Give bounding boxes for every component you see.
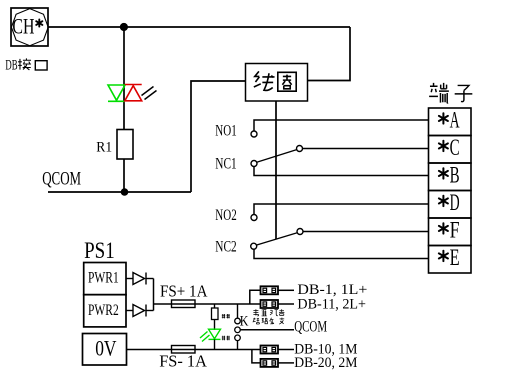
svg-text:A: A [450,108,460,133]
wire: DB-1 to label [278,289,294,291]
connector DB-20 [261,359,279,367]
svg-text:NC1: NC1 [215,156,236,173]
圈 glyph [278,72,296,91]
junction dot QCOM [121,188,129,196]
svg-text:CH: CH [12,14,34,39]
wire: QCOM rail [48,191,191,193]
wire: branch down to DB-20 [252,350,261,363]
svg-text:NO2: NO2 [215,207,236,224]
wire: DB-10 to label [278,349,294,351]
wire: CH* box to far right [48,26,350,28]
共阴 tiny label [222,314,230,318]
wire: coil bottom vertical (armature) [275,101,277,240]
svg-text:PWR2: PWR2 [88,302,119,319]
svg-text:QCOM: QCOM [294,319,327,336]
wire: plus rail [154,303,261,305]
PWR1 box [84,263,126,295]
terminal *E [439,251,448,261]
resistor R2 (LED dropper) [212,308,219,320]
svg-text:C: C [450,135,460,160]
svg-text:DB-11, 2L+: DB-11, 2L+ [297,296,366,312]
wire: QCOM tap from K [240,329,294,331]
connector DB-1 [261,286,279,294]
子 glyph [455,85,473,101]
contact arm 1 [257,150,297,163]
svg-text:PWR1: PWR1 [88,270,119,287]
contact arm 2 [257,233,298,245]
口 glyph [35,61,47,70]
CH* octagon symbol [11,9,48,46]
diode D4 (PWR2) [126,305,154,317]
LED D2 red (bicolour right) [125,85,142,101]
LED light arrows [142,87,157,100]
共阳 tiny label [222,336,230,340]
svg-text:DB-20, 2M: DB-20, 2M [294,355,357,371]
CH asterisk star [36,20,42,27]
svg-text:B: B [450,163,460,188]
terminal *D [439,196,448,206]
svg-text:DB: DB [5,57,17,73]
svg-text:0V: 0V [95,335,116,360]
wire: coil left to QCOM rail [191,81,246,192]
terminal strip boxes [429,108,472,273]
wire: right vertical down to coil [308,27,351,81]
svg-text:NC2: NC2 [215,239,236,256]
LED D1 green (bicolour left) [108,85,125,101]
svg-text:E: E [450,245,460,270]
switch K stem [237,304,239,318]
contact pole 1 [297,146,429,152]
wire: minus rail [127,349,261,351]
wire: DB-11 to label [278,303,294,305]
端 glyph (terminal header) [429,83,449,103]
contact NC2 [251,243,429,258]
switch K contacts [235,318,241,340]
svg-text:FS- 1A: FS- 1A [159,352,207,371]
svg-text:QCOM: QCOM [42,169,81,189]
contact NO1 [251,120,429,137]
contact pole 2 [297,229,429,235]
短路保护 tiny label [253,318,284,325]
contact NC1 [251,161,429,176]
terminal *A [439,113,448,123]
wire: diode OR bus [153,279,155,311]
svg-text:R1: R1 [96,140,112,156]
coil box [246,64,308,102]
terminal *F [439,223,448,233]
svg-text:F: F [450,218,460,243]
fuse FS- [172,346,196,354]
contact NO2 [251,204,429,221]
svg-text:PS1: PS1 [84,238,115,263]
connector DB-11 [261,300,279,308]
wire: branch up to DB-1 [250,290,261,304]
0V box [83,334,127,366]
svg-text:FS+ 1A: FS+ 1A [160,282,208,301]
PWR2 box [84,295,126,327]
connector DB-10 [261,346,279,354]
wire: DB-20 to label [278,362,294,364]
DB interface block U1 (CH* square) [11,8,48,46]
junction dot top [120,23,128,31]
fuse FS+ [172,300,196,308]
wire: R2 top stub [214,304,216,308]
wire: R2 to LED [214,320,216,331]
terminal *C [439,141,448,151]
switch K bottom stub [237,341,239,350]
svg-text:K: K [240,313,249,329]
电源设置 tiny label [253,309,284,316]
resistor R1 [117,130,133,160]
svg-text:NO1: NO1 [215,123,236,140]
LED D5 green power [200,329,221,341]
diode D3 (PWR1) [126,273,154,285]
wire: LED to minus rail [214,339,216,349]
wire: main vertical through LED and R1 [123,27,125,192]
svg-text:D: D [450,190,460,215]
terminal *B [439,168,448,178]
线 glyph [254,71,275,90]
接 glyph [18,58,31,70]
